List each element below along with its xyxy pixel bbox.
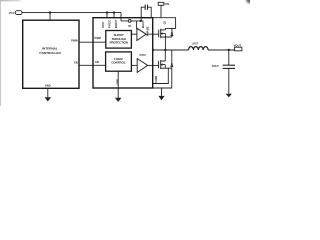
wire STP to upper driver [131, 33, 137, 35]
svg-text:PWM: PWM [95, 36, 101, 40]
wire elbow to BOOT pin [120, 13, 122, 21]
pin label PWM (driver) [95, 36, 101, 40]
op-amp lower gate driver [137, 59, 148, 73]
svg-text:VCC: VCC [101, 21, 105, 28]
ground (output) [226, 94, 232, 98]
capacitor C1 bootstrap [141, 5, 151, 21]
node VOUT terminal [234, 43, 242, 51]
wire Q2 body return [153, 68, 172, 88]
svg-text:CONTROLLER: CONTROLLER [39, 51, 61, 55]
boot diode D1 label [128, 25, 132, 28]
svg-text:VCC: VCC [9, 11, 15, 15]
svg-text:PVCC: PVCC [107, 19, 111, 28]
svg-text:VIN: VIN [164, 2, 169, 6]
pin label PVCC (lower) [140, 55, 147, 57]
controller U1 box [23, 20, 79, 88]
svg-text:CONTROL: CONTROL [111, 61, 125, 65]
logic control block [106, 52, 132, 71]
inductor L1 [189, 47, 209, 50]
wire VIN rail to Q1 drain [153, 18, 176, 29]
junction dot on VCC rail at controller pin [49, 11, 51, 13]
pin label PVCC (driver, rotated) [107, 19, 111, 28]
wire Q2 source to PGND [153, 68, 169, 83]
pin label VCC (driver, rotated) [101, 21, 105, 28]
svg-text:EN: EN [74, 61, 78, 65]
wire boot feed to upper driver [136, 21, 138, 29]
wire phase node [153, 49, 189, 51]
wire GND pin down [117, 71, 119, 98]
pin label PHASE (rotated) [146, 26, 150, 36]
svg-text:PGND: PGND [154, 76, 158, 84]
svg-text:PWM: PWM [71, 38, 77, 42]
junction dot output node [228, 49, 230, 51]
capacitor C2 output label [212, 65, 220, 68]
boot diode D1 (circle) [128, 20, 131, 23]
node VIN terminal [158, 2, 169, 18]
junction dot on VCC rail at driver PVCC pin [113, 11, 115, 13]
node VCC terminal [9, 11, 22, 15]
wire LGATE [148, 64, 159, 66]
wire BOOT internal [121, 20, 141, 22]
wire VCC rail [22, 12, 121, 14]
ground (driver) [115, 98, 122, 102]
capacitor C2 output [223, 50, 235, 94]
wire stub to driver PVCC pin [113, 13, 115, 18]
wire stub VCC to controller [49, 13, 51, 21]
svg-text:COUT: COUT [212, 65, 220, 68]
pin label GND (controller) [45, 83, 51, 87]
wire stub to driver VCC pin [106, 13, 108, 18]
transistor Q1 label [163, 20, 167, 24]
svg-text:PROTECTION: PROTECTION [110, 40, 128, 44]
junction dot phase [164, 49, 166, 51]
pin label BOOT outer (rotated) [141, 20, 145, 28]
svg-text:PHASE: PHASE [146, 26, 150, 36]
shoot-through protection block [106, 31, 132, 49]
pin label EN (controller) [74, 61, 78, 65]
svg-text:Q1: Q1 [163, 20, 167, 24]
svg-text:GND: GND [116, 79, 120, 85]
svg-text:GND: GND [45, 83, 51, 87]
controller label [39, 47, 61, 56]
wire inductor to output [208, 49, 234, 51]
pin label EN (driver) [95, 60, 99, 64]
ground (power stage) [158, 88, 164, 100]
junction dot phase pin [152, 49, 154, 51]
svg-text:VOUT: VOUT [234, 43, 242, 47]
pin label PWM (controller) [71, 38, 77, 42]
svg-text:EN: EN [95, 60, 99, 64]
wire Q1 source to phase [164, 37, 166, 50]
top page edge line [0, 0, 23, 1]
svg-text:INTERNAL: INTERNAL [42, 47, 58, 51]
pin label GND (driver, rotated) [116, 79, 120, 85]
junction dot BOOT at cap [140, 20, 142, 22]
wire EN controller to driver [79, 64, 106, 66]
left page edge line [0, 0, 2, 106]
svg-text:BOOT: BOOT [141, 20, 145, 28]
transistor Q2 [159, 50, 173, 69]
wire UGATE [146, 33, 159, 35]
svg-text:PVCC: PVCC [140, 55, 147, 57]
pin label BOOT (driver, rotated) [114, 19, 118, 28]
pin label PGND (rotated) [154, 76, 158, 84]
driver U2 box [93, 18, 153, 88]
wire LC to lower driver [131, 64, 137, 66]
svg-text:BOOT: BOOT [114, 19, 118, 28]
top-right corner shadow [244, 0, 250, 6]
transistor Q1 [159, 28, 173, 38]
svg-text:LOUT: LOUT [192, 43, 199, 46]
op-amp upper gate driver [137, 28, 146, 40]
inductor L1 label [192, 43, 199, 46]
ground (controller) [45, 88, 52, 101]
junction dot on VCC rail at driver VCC pin [106, 11, 108, 13]
wire PWM controller to driver [79, 41, 106, 43]
